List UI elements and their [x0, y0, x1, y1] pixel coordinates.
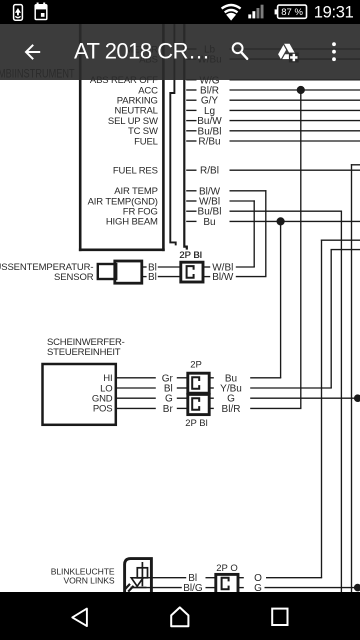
wire Bl (lamp to label)	[148, 577, 187, 579]
svg-text:AT 2018 CR…: AT 2018 CR…	[74, 38, 210, 63]
connector bracket inner (cluster multi-pin connector)	[170, 24, 175, 245]
wire W/Bu (row y=59.1)	[230, 58, 360, 60]
lamp glow dash 2	[128, 586, 133, 592]
connector 2P O terminal bracket	[222, 578, 229, 590]
connector 2P (upper) housing	[188, 373, 209, 393]
svg-text:2P O: 2P O	[216, 563, 237, 574]
wire Bl/R vertical (ACC power to headlight controller POS)	[300, 90, 302, 408]
connector output stub Y/Bu	[209, 387, 214, 389]
wire stub Gr to connector	[177, 377, 188, 379]
wire G (to right edge)	[265, 587, 360, 589]
wire Bl top (sensor to connector)	[158, 266, 181, 268]
corner wire at y=249.6 to right edge	[331, 249, 360, 251]
pin wire POS from box	[117, 407, 156, 409]
wire O (to vertical bus)	[266, 577, 322, 579]
svg-text:Bl/R: Bl/R	[222, 404, 241, 415]
wire Bl/W (row y=190.8)	[230, 190, 267, 192]
svg-text:2P Bl: 2P Bl	[185, 418, 208, 429]
wire R/Bu (row y=141)	[230, 140, 360, 142]
lamp bulb vertical lead	[141, 562, 143, 586]
corner wire at y=240 to right edge	[321, 239, 360, 241]
wire W/Bl (sensor to corner)	[236, 266, 255, 268]
pin stub ABS	[186, 58, 196, 60]
svg-text:2P: 2P	[190, 360, 202, 371]
wire Bl/G (lamp to label)	[147, 587, 182, 589]
wire stub Bl/G to connector	[206, 587, 216, 589]
wire stub Br to connector	[177, 407, 188, 409]
pin stub FR FOG	[186, 210, 196, 212]
svg-text:Bu: Bu	[203, 217, 215, 228]
wire vertical from y=164.8 down off-screen	[351, 164, 353, 592]
pin stub PARKING	[186, 99, 196, 101]
wire stub Bl to connector	[206, 577, 216, 579]
wire Bl/R (row y=90)	[230, 89, 360, 91]
pin wire HI from box	[117, 377, 156, 379]
lamp bulb bar	[131, 587, 147, 589]
svg-text:Bl/W: Bl/W	[212, 272, 234, 283]
pin stub NEUTRAL	[186, 109, 196, 111]
wire Y/Bu vertical (right edge y=249.6 down to controller LO)	[330, 249, 332, 388]
sensor connector output stub bottom	[203, 276, 210, 278]
wire Lg (row y=110.4)	[230, 109, 360, 111]
svg-text:Br: Br	[163, 404, 174, 415]
wire Bu/Bl (row y=130.8)	[230, 130, 360, 132]
svg-text:2P Bl: 2P Bl	[180, 250, 203, 261]
android navigation bar	[0, 592, 360, 640]
wire stub G to connector	[177, 397, 188, 399]
connector 2P O housing	[216, 574, 238, 594]
lamp bulb triangle	[131, 578, 143, 587]
wire Bu/Bl vertical (FR FOG down off-screen)	[340, 211, 342, 592]
svg-text:POS: POS	[93, 404, 113, 415]
wire Bu (row y=221.4)	[230, 220, 360, 222]
svg-text:VORN LINKS: VORN LINKS	[63, 576, 114, 586]
connector output stub Bu	[209, 377, 214, 379]
svg-text:R/Bu: R/Bu	[198, 137, 220, 148]
status icon: calendar event	[35, 3, 47, 20]
wire Y/Bu (output)	[250, 387, 332, 389]
app toolbar (semi-transparent over page)	[0, 24, 360, 80]
connector output stub G	[238, 587, 244, 589]
component air temperature sensor symbol	[98, 264, 116, 279]
lamp bulb base rectangle	[137, 568, 147, 578]
pin wire LO from box	[117, 387, 156, 389]
toolbar add-to-Drive icon	[278, 44, 295, 59]
junction dot on wire Bl/R	[297, 86, 305, 94]
sensor pin stub bottom	[142, 276, 146, 278]
wire Lb (row y=49)	[230, 48, 360, 50]
wire Bl/W vertical (AIR TEMP to sensor)	[265, 190, 267, 276]
wire Bl/R (output)	[250, 407, 301, 409]
wire R/Bl (row y=170.2)	[230, 169, 360, 171]
component turn signal lamp housing	[125, 559, 152, 592]
svg-text:SENSOR: SENSOR	[54, 272, 94, 283]
lamp glow dash 1	[125, 584, 130, 590]
status icon: cellular signal bars	[248, 5, 263, 19]
component headlight control unit box	[43, 364, 116, 425]
toolbar overflow menu icon (3 dots)	[332, 42, 336, 61]
sensor pin stub top	[142, 266, 146, 268]
wire stub Bl to connector	[177, 387, 188, 389]
wire G/Y (row y=100.2)	[230, 99, 360, 101]
pin stub TC SW	[186, 130, 196, 132]
sensor connector output stub top	[203, 266, 210, 268]
junction dot on G wire (lamp) at right edge	[354, 584, 360, 592]
wire O vertical (right edge y=240 down to turn signal)	[321, 240, 323, 578]
connector output stub Bl/R	[209, 407, 214, 409]
connector output stub G	[209, 397, 214, 399]
pin stub SEL UP SW	[186, 120, 196, 122]
connector 2P Bl (sensor) housing	[181, 262, 203, 282]
pin stub AIR TEMP(GND)	[186, 200, 196, 202]
pin stub FUEL	[186, 140, 196, 142]
connector bracket outer (cluster multi-pin connector)	[184, 24, 187, 250]
status icon: wifi	[222, 5, 241, 12]
pin stub FUEL RES	[186, 169, 196, 171]
svg-text:19:31: 19:31	[314, 4, 354, 22]
pin stub AIR TEMP	[186, 190, 196, 192]
wire W/Bl (row y=201)	[230, 200, 255, 202]
status icon: battery with percentage	[275, 5, 307, 18]
wire Bu vertical (HIGH BEAM to headlight controller HI)	[280, 221, 282, 377]
pin wire GND from box	[117, 397, 156, 399]
svg-text:HIGH BEAM: HIGH BEAM	[106, 217, 158, 228]
svg-text:87 %: 87 %	[281, 7, 303, 18]
wire Bu/Bl (row y=211.2)	[230, 210, 343, 212]
pin stub METER	[186, 48, 196, 50]
connector 2P Bl (lower) housing	[188, 394, 209, 414]
nav back icon (triangle)	[72, 609, 87, 627]
toolbar search icon	[233, 43, 247, 58]
nav home icon (house)	[171, 607, 188, 626]
connector 2P Bl (sensor) terminal bracket	[187, 266, 194, 278]
component KOMBIINSTRUMENT (instrument cluster) box	[79, 24, 82, 251]
wire Bl/W (sensor to corner)	[236, 276, 267, 278]
corner wire at y=164.8 to right edge	[351, 164, 360, 166]
svg-text:FUEL RES: FUEL RES	[113, 166, 158, 177]
svg-text:STEUEREINHEIT: STEUEREINHEIT	[47, 347, 121, 358]
status icon: phone with up arrow	[14, 5, 23, 21]
nav recents icon (square)	[272, 609, 287, 625]
pin stub ABS REAR OFF	[186, 79, 196, 81]
pin stub HIGH BEAM	[186, 220, 196, 222]
wire Bl bottom (sensor to connector)	[158, 276, 181, 278]
connector output stub O	[238, 577, 244, 579]
wire G (output)	[250, 397, 360, 399]
connector 2P Bl (lower) terminal bracket	[192, 398, 199, 410]
wire W/G (row y=79.8)	[230, 79, 360, 81]
wire Bu (output)	[250, 377, 281, 379]
wire Bu/W (row y=120.6)	[230, 120, 360, 122]
junction dot on wire Bu	[277, 217, 285, 225]
svg-text:Bl: Bl	[148, 272, 157, 283]
junction dot on G wire at right edge	[354, 394, 360, 402]
svg-text:FUEL: FUEL	[134, 136, 158, 147]
svg-text:R/Bl: R/Bl	[200, 166, 219, 177]
toolbar back arrow icon	[26, 45, 40, 59]
connector 2P (upper) terminal bracket	[192, 377, 199, 389]
pin stub ACC	[186, 89, 196, 91]
status bar	[0, 0, 360, 24]
wire W/Bl vertical (AIR TEMP GND to sensor)	[253, 200, 255, 267]
